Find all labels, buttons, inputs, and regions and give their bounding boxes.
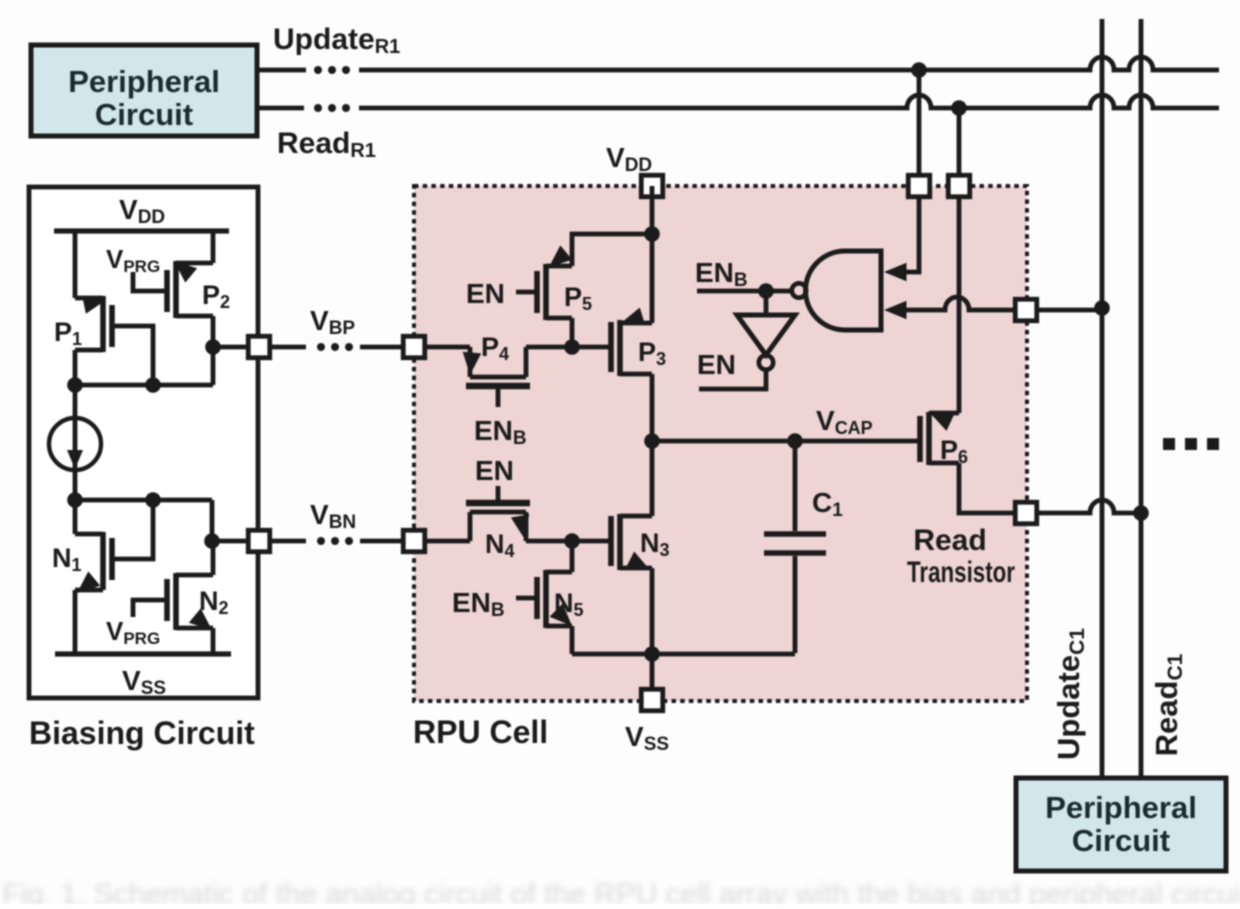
- transistor N2: [211, 541, 216, 575]
- node N-mirror rail: [75, 498, 212, 503]
- junction P5 drain on VBP line: [564, 339, 580, 355]
- wire Update_R1 break dots: [314, 66, 322, 74]
- svg-text:RPU Cell: RPU Cell: [413, 714, 548, 750]
- VDD rail (biasing): [54, 228, 229, 233]
- wire Read_C1 column: [1139, 19, 1144, 778]
- svg-text:Circuit: Circuit: [1072, 823, 1170, 858]
- nand gate U1 (mirrored): [806, 251, 881, 330]
- node V_BP junction: [205, 339, 221, 355]
- terminal square read row (RPU): [948, 175, 970, 197]
- RPU cell region (dotted boundary, pink fill): [414, 186, 1027, 701]
- V_BN break dots: [317, 537, 325, 545]
- wire V_BN jumper stub right: [360, 539, 403, 544]
- current source I1: [73, 385, 78, 500]
- capacitor C1: [793, 441, 798, 531]
- inverter U2 (EN to EN_B): [764, 291, 769, 315]
- wire EN_B node: [697, 289, 792, 294]
- terminal square read out (RPU right): [1015, 502, 1037, 524]
- terminal square update row (RPU): [908, 175, 930, 197]
- wire V_BN jumper stub left: [270, 539, 306, 544]
- svg-text:Peripheral: Peripheral: [1045, 790, 1197, 825]
- wire Update_R1 row stub: [257, 68, 306, 73]
- terminal square nand input (RPU right): [1015, 299, 1037, 321]
- wire Read_R1 row line (hops over col wires): [359, 95, 1219, 108]
- svg-text:Biasing Circuit: Biasing Circuit: [29, 715, 255, 751]
- wire V_BP to terminal: [213, 345, 247, 350]
- svg-text:EN: EN: [466, 278, 505, 309]
- wire V_CAP to read gate: [652, 439, 920, 444]
- junction N5 drain on VBN line: [564, 533, 580, 549]
- svg-text:Transistor: Transistor: [907, 556, 1015, 589]
- wire Update_C1 column: [1100, 19, 1105, 778]
- wire N3 source down: [650, 568, 655, 654]
- read transistor P6: [917, 416, 923, 462]
- svg-text:EN: EN: [697, 349, 736, 380]
- wire P5 source branch: [572, 234, 652, 266]
- wire update column into nand: [892, 70, 919, 272]
- junction on Update_R1 row: [911, 62, 927, 78]
- wire VSS drop: [650, 654, 655, 700]
- wire P4 to P3 gate: [526, 345, 611, 350]
- junction VDD/P5: [644, 226, 660, 242]
- svg-text:Fig. 1. Schematic of the analo: Fig. 1. Schematic of the analog circuit …: [2, 878, 1240, 904]
- terminal square V_SS (RPU): [641, 689, 663, 711]
- junction VSS node: [644, 646, 660, 662]
- junction nand input to Update_C1: [1094, 300, 1110, 316]
- transistor P3: [608, 322, 614, 372]
- transistor P5: [546, 264, 572, 269]
- wire V_BP jumper stub left: [270, 345, 306, 350]
- wire read column to P6 source: [957, 108, 962, 413]
- V_BP break dots: [317, 343, 325, 351]
- transistor N5: [570, 541, 575, 572]
- junction read out to Read_C1: [1133, 505, 1149, 521]
- VSS node line: [572, 652, 795, 657]
- transistor N4 (pass gate): [424, 539, 470, 544]
- peripheral circuit box (bottom-right): [1016, 778, 1226, 871]
- biasing circuit box: [29, 187, 258, 698]
- peripheral circuit box (top-left): [31, 45, 257, 136]
- svg-text:Read: Read: [913, 524, 986, 557]
- svg-text:Peripheral: Peripheral: [68, 64, 220, 99]
- node V_BN junction: [204, 533, 220, 549]
- wire Update_R1 row line (hops over Update_C1 and Read_C1): [359, 57, 1219, 70]
- transistor P2: [211, 231, 216, 263]
- transistor N3: [608, 516, 614, 566]
- transistor P4 (pass gate): [468, 347, 473, 377]
- nand input arrow bottom: [884, 301, 907, 320]
- wire VDD drop: [650, 186, 655, 323]
- terminal square V_DD (RPU): [641, 175, 663, 197]
- wire V_BP jumper stub right: [360, 345, 403, 350]
- ellipsis more columns: [1163, 438, 1175, 450]
- junction V_CAP: [644, 433, 660, 449]
- wire VBP into cell: [424, 345, 470, 350]
- node P-mirror (drain rail): [75, 383, 213, 388]
- wire Read_R1 row stub: [257, 106, 304, 111]
- junction EN_B: [758, 283, 774, 299]
- terminal square V_BN (biasing): [248, 530, 270, 552]
- svg-text:EN: EN: [475, 455, 514, 486]
- VSS rail (biasing): [55, 651, 231, 656]
- junction on Read_R1 row: [951, 100, 967, 116]
- wire N4 to N3 gate: [526, 539, 611, 544]
- wire V_BN to terminal: [212, 539, 247, 544]
- transistor P1: [73, 231, 78, 298]
- wire P6 drain out (hops Update_C1): [959, 463, 1141, 513]
- svg-text:Circuit: Circuit: [95, 97, 193, 132]
- wire P3 drain to VCAP node: [650, 374, 655, 516]
- nand input arrow top: [884, 263, 907, 282]
- terminal square V_BP (RPU): [403, 336, 425, 358]
- terminal square V_BN (RPU): [403, 530, 425, 552]
- wire nand lower input (hops read col): [892, 297, 1102, 310]
- terminal square V_BP (biasing): [248, 336, 270, 358]
- transistor N1: [73, 500, 78, 534]
- junction C1 tap: [787, 433, 803, 449]
- wire Read_R1 break dots: [314, 104, 322, 112]
